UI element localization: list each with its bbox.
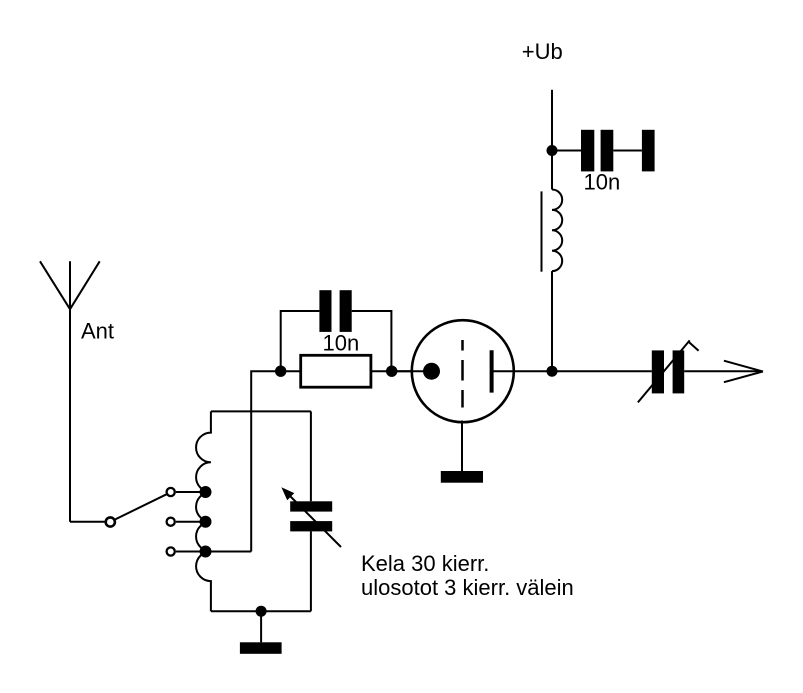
svg-text:+Ub: +Ub [522, 39, 563, 64]
svg-text:10n: 10n [584, 169, 621, 194]
svg-text:10n: 10n [323, 330, 360, 355]
svg-text:ulosotot 3 kierr. välein: ulosotot 3 kierr. välein [361, 575, 574, 600]
svg-text:Kela 30 kierr.: Kela 30 kierr. [361, 551, 489, 576]
svg-text:Ant: Ant [81, 319, 114, 344]
